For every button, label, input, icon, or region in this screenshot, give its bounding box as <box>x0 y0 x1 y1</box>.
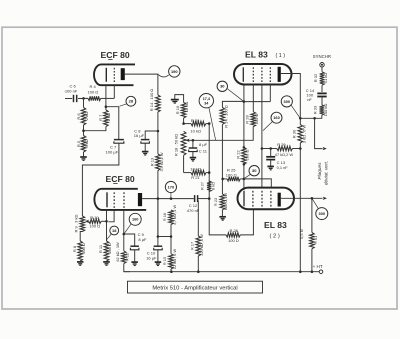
leader circle 300 bottom <box>312 199 318 209</box>
svg-text:100 Ω: 100 Ω <box>88 90 99 95</box>
wire R31 drop <box>311 198 313 232</box>
label R7 <box>98 113 111 121</box>
tube V1 ECF 80 envelope <box>94 64 135 85</box>
ground C8 <box>142 152 149 155</box>
label C13 <box>277 160 289 170</box>
ground R8 <box>77 262 84 265</box>
wire C8 to ground <box>144 143 146 151</box>
svg-text:C 11: C 11 <box>199 148 208 153</box>
svg-text:R 13: R 13 <box>150 157 155 166</box>
wire cathode V3 <box>106 210 108 241</box>
svg-text:30: 30 <box>220 84 225 89</box>
label R24 <box>223 105 228 128</box>
node R22 bottom <box>243 163 246 166</box>
node R31 bus <box>311 270 314 273</box>
svg-text:2 kΩ: 2 kΩ <box>84 112 89 120</box>
svg-text:30: 30 <box>252 168 257 173</box>
resistor R24 <box>220 108 225 125</box>
svg-text:12 kΩ , 6 W: 12 kΩ , 6 W <box>172 248 177 269</box>
svg-text:R 17: R 17 <box>190 242 195 250</box>
leader circle 170 <box>170 193 172 199</box>
node screen V3/C9 <box>123 233 126 236</box>
wire C7 to R9 <box>82 143 119 216</box>
voltmeter circle 17.4/34 <box>199 94 213 108</box>
wire node to R6 <box>83 98 85 107</box>
svg-text:R 7: R 7 <box>98 114 103 121</box>
svg-text:C 13: C 13 <box>277 160 286 165</box>
ground R23 <box>219 217 226 220</box>
voltmeter circle 300 top <box>281 96 292 107</box>
svg-text:R 15: R 15 <box>162 257 167 265</box>
tube V4 electrode dashes 1 <box>252 191 254 207</box>
label +HT <box>313 264 323 269</box>
svg-text:R 19: R 19 <box>175 105 180 114</box>
wire C10 drop <box>157 199 159 246</box>
label C11 <box>199 142 208 153</box>
tube V2 anode bar <box>278 67 281 82</box>
node cathode V3 <box>105 220 108 223</box>
svg-text:R 8: R 8 <box>72 245 77 252</box>
node anode/R16 <box>170 197 173 200</box>
wire pin3 V2 <box>269 85 271 102</box>
node R30 bus <box>299 270 302 273</box>
node R15 bus <box>170 270 173 273</box>
svg-text:R 14 . 100 Ω: R 14 . 100 Ω <box>149 89 154 112</box>
wire grid junction to V4 electrode <box>244 179 271 188</box>
wire C12 to R27 node <box>198 198 210 200</box>
wire anode V4 <box>281 197 323 199</box>
tube V1 anode bar <box>121 68 125 80</box>
svg-text:R 31: R 31 <box>313 236 318 244</box>
wire anode V1 to R14 <box>125 74 158 95</box>
tube V1 cathode <box>105 68 107 82</box>
wire to upper plate arrow <box>315 118 323 148</box>
svg-text:R 16: R 16 <box>162 213 167 221</box>
voltmeter circle 160 bottom <box>129 213 141 225</box>
label C12 <box>187 203 200 213</box>
svg-text:EL 83: EL 83 <box>264 220 287 230</box>
wire grid stub V1 <box>113 85 115 98</box>
wire R22 to grid node <box>243 164 245 190</box>
wire C10 to ground <box>157 250 159 262</box>
wire R19 to node <box>183 118 185 124</box>
node grid V2 <box>243 100 246 103</box>
resistor R4 <box>88 96 101 100</box>
svg-text:51 kΩ: 51 kΩ <box>323 73 328 84</box>
tube V4 EL 83 (2) label <box>264 220 287 240</box>
tube V1 ECF 80 label <box>101 50 130 60</box>
ground R19 top <box>171 100 179 103</box>
label R27 <box>200 182 215 190</box>
svg-text:47 kΩ,2 W: 47 kΩ,2 W <box>275 152 294 157</box>
resistor R21 <box>191 170 206 175</box>
wiper arrow R9 <box>85 220 89 223</box>
svg-text:220 kΩ ,1 W: 220 kΩ ,1 W <box>199 234 204 256</box>
label R14 <box>149 89 154 112</box>
wire R17 drop <box>197 201 199 237</box>
capacitor C10 <box>154 246 163 250</box>
wire R21 ends <box>184 172 210 174</box>
node grid V4 <box>243 178 246 181</box>
svg-text:R 10: R 10 <box>90 215 99 220</box>
leader circle 190 <box>158 75 168 77</box>
resistor R26 <box>226 233 240 237</box>
node R21 right <box>208 171 211 174</box>
resistor R29 <box>277 146 293 151</box>
wire screen V3 down <box>123 210 125 251</box>
wire R26 to V4 pin <box>240 210 253 235</box>
leader circle 300 top <box>291 104 300 118</box>
wire C10 to R15 node <box>158 236 171 238</box>
svg-text:8 kΩ: 8 kΩ <box>212 182 216 190</box>
svg-text:100 Ω: 100 Ω <box>254 114 259 125</box>
label R5 <box>76 139 89 147</box>
node anode V4 / R31 <box>311 197 314 200</box>
svg-text:150 Ω: 150 Ω <box>107 243 112 254</box>
wire R17 to bus <box>197 256 199 272</box>
svg-text:300: 300 <box>319 211 326 216</box>
svg-text:R 23: R 23 <box>213 198 218 206</box>
voltmeter circle 18 <box>110 226 119 235</box>
wire R25 ends <box>223 178 244 180</box>
tube V4 anode bar <box>278 193 281 207</box>
svg-text:160: 160 <box>273 115 280 120</box>
node C8 tap <box>157 130 160 133</box>
svg-text:R 27: R 27 <box>200 182 204 190</box>
label R21 <box>190 166 201 179</box>
svg-text:SYNCHR: SYNCHR <box>313 54 331 59</box>
svg-text:17,4: 17,4 <box>203 97 211 101</box>
wire grid bus V2 <box>244 101 270 103</box>
svg-text:0,1 nF: 0,1 nF <box>277 165 289 170</box>
label C8 <box>134 129 145 139</box>
resistor R6 <box>81 108 86 126</box>
resistor R32 <box>320 72 325 85</box>
resistor R13 <box>156 154 161 171</box>
svg-text:R 21: R 21 <box>191 175 200 180</box>
wire R9 to R8 <box>80 232 82 242</box>
svg-text:·100 nF: ·100 nF <box>64 88 78 93</box>
svg-text:12 kΩ: 12 kΩ <box>184 102 189 113</box>
svg-text:R 33: R 33 <box>313 105 318 114</box>
label R28 <box>244 114 259 125</box>
arrow lower plate <box>323 197 327 200</box>
node input junction <box>82 97 85 100</box>
tube V2 envelope <box>234 64 292 85</box>
resistor R31 <box>310 233 315 249</box>
wire C11 to ground <box>192 152 194 158</box>
capacitor C11 <box>189 148 198 152</box>
title box <box>128 281 263 293</box>
resistor R25 <box>227 177 240 181</box>
svg-text:16 μF: 16 μF <box>134 133 145 138</box>
svg-text:680 Ω,1W: 680 Ω,1W <box>223 193 228 211</box>
svg-text:R 5: R 5 <box>76 140 81 147</box>
svg-text:3 kΩ , 6 W: 3 kΩ , 6 W <box>301 125 306 144</box>
label R31 <box>299 229 318 244</box>
wire R24 to R23 <box>221 124 223 194</box>
wire screen V2 down <box>261 85 263 188</box>
resistor R14 <box>156 95 161 112</box>
svg-text:R 29: R 29 <box>277 142 286 147</box>
wire R7top to C7 <box>106 107 119 140</box>
svg-text:R 18 . 50 kΩ: R 18 . 50 kΩ <box>174 134 179 156</box>
voltmeter circle 190 <box>169 66 180 77</box>
wire C8 branch <box>145 131 158 139</box>
node R22 top <box>243 146 246 149</box>
svg-text:3 kΩ: 3 kΩ <box>84 139 89 147</box>
wire SYNCHR to R32 <box>321 67 323 72</box>
svg-text:3,9 kΩ,2 W: 3,9 kΩ,2 W <box>160 152 164 171</box>
node C13 tap <box>269 147 272 150</box>
label R10 <box>89 215 100 229</box>
resistor R30 <box>298 125 303 144</box>
svg-text:( 2 ): ( 2 ) <box>270 233 280 239</box>
label R15 <box>162 248 177 269</box>
label R26 <box>228 228 239 243</box>
svg-text:0,5 M: 0,5 M <box>299 229 304 239</box>
svg-text:10 kΩ: 10 kΩ <box>190 166 201 171</box>
tube V3 grid dashes <box>113 192 115 208</box>
svg-text:R 12: R 12 <box>125 253 130 261</box>
wire R31 to bus <box>311 249 313 272</box>
wire C11 stem <box>192 140 194 148</box>
label R13 <box>150 152 164 171</box>
svg-text:200 Ω: 200 Ω <box>245 150 250 161</box>
tube V4 electrode dashes 2 <box>261 191 263 207</box>
tube V4 envelope <box>238 188 295 210</box>
label SYNCHR <box>313 54 331 59</box>
voltmeter circle 30 top <box>217 81 227 91</box>
wire pin R28 <box>252 85 254 112</box>
resistor R27 <box>207 181 211 192</box>
node C11 tap <box>192 139 195 142</box>
wire grid V2 down <box>243 85 245 148</box>
title text <box>152 285 237 291</box>
svg-text:déviat. vert.: déviat. vert. <box>323 161 328 185</box>
ground C13 <box>267 166 274 169</box>
tube V3 anode bar <box>138 193 142 206</box>
wire to R29 <box>262 148 277 150</box>
svg-text:R 30: R 30 <box>292 129 297 138</box>
wire R20 left <box>184 123 191 125</box>
wire R29 to HT rail <box>293 148 301 150</box>
HT bus wire <box>124 271 319 273</box>
label R22 <box>235 150 249 161</box>
svg-text:R 26: R 26 <box>230 228 239 233</box>
resistor R5 <box>81 136 86 153</box>
wire R33 to node <box>300 115 322 118</box>
svg-text:EL 83: EL 83 <box>245 49 268 59</box>
svg-text:28: 28 <box>129 99 134 104</box>
wire R6-R5 <box>83 125 85 136</box>
svg-text:R 20: R 20 <box>191 118 200 123</box>
resistor R17 <box>196 236 201 256</box>
voltmeter circle 160 top <box>271 112 282 123</box>
ground R11 <box>103 262 110 265</box>
node R16/R15/C10 <box>170 235 173 238</box>
resistor R12 <box>122 251 127 264</box>
node C10/R16 link <box>157 235 160 238</box>
resistor R11 <box>104 241 109 261</box>
resistor R8 <box>78 241 83 261</box>
wiper wire to R28 <box>185 127 253 141</box>
svg-text:1 kΩ: 1 kΩ <box>106 113 111 121</box>
svg-text:170: 170 <box>168 184 175 189</box>
capacitor C7 <box>114 140 124 144</box>
leader circle 160 top <box>263 122 273 131</box>
label R30 <box>292 125 307 144</box>
svg-text:R 4: R 4 <box>90 84 97 89</box>
tube V2 grid line <box>242 67 244 82</box>
svg-text:100 Ω: 100 Ω <box>89 224 100 229</box>
svg-text:100 kΩ: 100 kΩ <box>323 104 328 117</box>
ground C9 <box>131 262 138 265</box>
label R4 <box>88 84 99 94</box>
svg-text:+ HT: + HT <box>313 264 323 269</box>
tube V3 cathode <box>106 192 108 207</box>
tube V4 grid line <box>243 191 245 206</box>
wire grid stub V3 <box>108 210 114 222</box>
resistor R22 <box>242 147 247 164</box>
capacitor C13 <box>266 157 275 160</box>
capacitor C9 <box>130 246 139 250</box>
svg-text:8 μF: 8 μF <box>199 142 208 147</box>
arrow upper plate <box>323 147 327 150</box>
svg-text:Metrix 510 - Amplificateur ver: Metrix 510 - Amplificateur vertical <box>152 285 237 291</box>
wire C14 to R33 <box>321 97 323 105</box>
tube V3 ECF 80 label <box>106 174 135 184</box>
tube V2 electrode dashes 3 <box>269 67 271 82</box>
node anode/C10 rail <box>157 197 160 200</box>
node R6/R5/R7 <box>82 129 85 132</box>
svg-text:82 kΩ , 1W: 82 kΩ , 1W <box>115 242 120 262</box>
label R11 <box>98 243 112 254</box>
resistor R28 <box>251 112 256 127</box>
svg-text:190: 190 <box>171 69 178 74</box>
tube V4 electrode dashes 3 <box>270 191 272 207</box>
svg-text:R 28: R 28 <box>244 115 249 124</box>
wire R20 right/R21 right rail <box>206 124 209 199</box>
node screen/C13 <box>261 147 264 150</box>
node deflection branch <box>313 117 316 120</box>
wire R18 to R21 <box>183 155 185 172</box>
node R19/R20/R18 <box>182 122 185 125</box>
wire R23 to ground <box>221 210 223 217</box>
voltmeter circle 170 <box>165 181 176 192</box>
leader circle 30 bottom <box>244 174 250 178</box>
resistor R18 potentiometer <box>181 131 186 155</box>
svg-text:ECF 80: ECF 80 <box>106 174 135 184</box>
label deviat vert <box>323 161 328 185</box>
resistor R19 <box>181 103 186 119</box>
svg-text:Plaques: Plaques <box>317 162 322 180</box>
svg-text:300 Ω: 300 Ω <box>81 243 86 254</box>
wiper arrow R18 <box>185 139 189 142</box>
tube V3 screen dashes <box>123 192 125 208</box>
node R17 bus <box>197 270 200 273</box>
terminal +HT <box>319 270 323 274</box>
wire C13 stem <box>270 149 272 167</box>
label R12 <box>115 242 129 262</box>
resistor R10 <box>89 219 102 223</box>
wire R13 down to anode2 rail <box>157 171 159 237</box>
node R27 bottom / C12 <box>208 197 211 200</box>
tube V2 electrode dashes 1 <box>252 67 254 82</box>
svg-text:300: 300 <box>284 99 291 104</box>
leader circle 28 <box>120 104 127 106</box>
capacitor C8 <box>141 140 150 144</box>
tube V2 EL 83 (1) label <box>245 49 285 59</box>
resistor R7 <box>104 110 109 127</box>
voltmeter circle 300 bottom <box>316 208 328 220</box>
label C7 <box>106 145 119 155</box>
wire R32 to C14 <box>321 85 323 92</box>
svg-text:R 24 . 100 Ω: R 24 . 100 Ω <box>223 105 228 128</box>
wire R24 top <box>222 101 244 107</box>
svg-text:R 6: R 6 <box>76 113 81 120</box>
label R20 <box>190 118 201 134</box>
wire R16 to R15 <box>170 225 172 254</box>
wire R10 right <box>101 220 106 222</box>
label R8 <box>72 243 86 254</box>
label R25 <box>226 167 237 177</box>
resistor R9 potentiometer <box>80 216 85 232</box>
node R33 junction <box>299 117 302 120</box>
leader circle 160 bottom <box>124 224 131 234</box>
label C14 <box>306 88 315 102</box>
terminal SYNCHR <box>320 62 324 66</box>
tube V1 grid (dashed) <box>113 68 115 82</box>
label R6 <box>76 112 89 120</box>
svg-text:100 Ω: 100 Ω <box>226 172 237 177</box>
wire R15 to bus <box>170 269 172 272</box>
wire R7 to node <box>84 127 106 131</box>
svg-text:R 11: R 11 <box>98 244 103 253</box>
node R24/R25 <box>221 178 224 181</box>
label R16 <box>162 204 177 225</box>
input wire <box>65 98 72 100</box>
tube V3 envelope <box>94 189 146 210</box>
capacitor C14 <box>317 93 326 96</box>
voltmeter circle 30 bottom <box>249 166 259 176</box>
node cathode R7 <box>105 105 108 108</box>
svg-text:8 μF: 8 μF <box>138 237 147 242</box>
wire R14 to R13 <box>157 112 159 154</box>
wire anode V2 <box>281 74 301 125</box>
wire C6 to node <box>78 97 88 99</box>
wire cathode V1 <box>105 85 107 110</box>
resistor R16 <box>169 210 174 225</box>
svg-text:16 μF: 16 μF <box>146 256 157 261</box>
label R17 <box>190 234 205 256</box>
label R33 <box>313 104 328 117</box>
label R18 <box>174 134 179 156</box>
node R29/R30 <box>299 147 302 150</box>
svg-text:nF: nF <box>307 97 312 102</box>
svg-text:ECF 80: ECF 80 <box>101 50 130 60</box>
resistor R33 <box>320 105 325 115</box>
label R23 <box>213 193 228 211</box>
node R20 right <box>208 122 211 125</box>
resistor R23 <box>220 194 225 210</box>
svg-text:10 kΩ: 10 kΩ <box>190 129 201 134</box>
leader circle 30 top <box>227 89 243 102</box>
wire R30 to bus <box>299 143 301 272</box>
label C9 <box>138 232 147 242</box>
svg-text:4,7 kΩ ,1 W: 4,7 kΩ ,1 W <box>172 204 177 225</box>
resistor R20 <box>191 121 206 126</box>
